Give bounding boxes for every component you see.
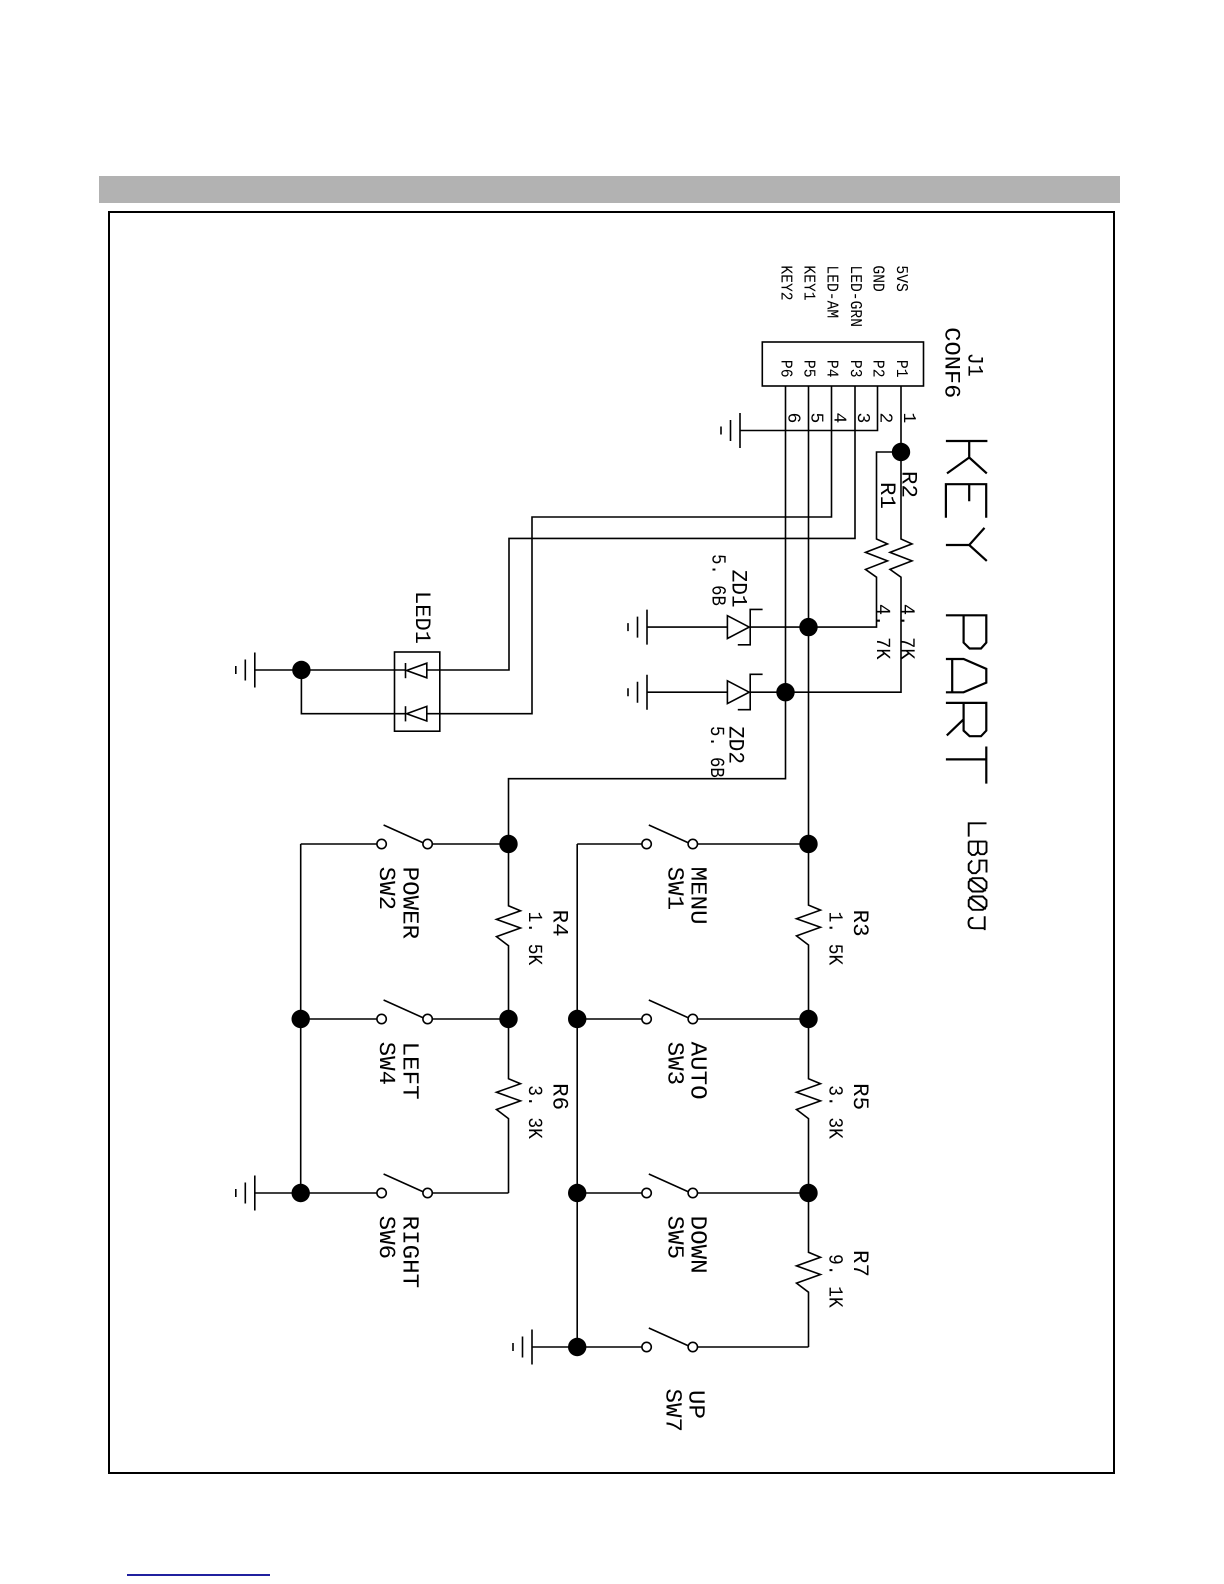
svg-text:SW4: SW4 [373, 1042, 399, 1086]
svg-text:6: 6 [783, 413, 803, 424]
svg-text:4: 4 [829, 413, 849, 424]
svg-text:POWER: POWER [397, 867, 423, 940]
svg-text:R4: R4 [546, 910, 571, 937]
svg-text:4. 7K: 4. 7K [870, 604, 893, 660]
svg-text:R3: R3 [847, 910, 872, 937]
svg-text:SW5: SW5 [662, 1216, 688, 1260]
svg-text:P5: P5 [799, 360, 818, 378]
svg-text:SW3: SW3 [662, 1042, 688, 1086]
svg-text:MENU: MENU [685, 867, 711, 925]
svg-text:CONF6: CONF6 [939, 327, 964, 398]
svg-text:3. 3K: 3. 3K [522, 1085, 545, 1139]
svg-text:P2: P2 [868, 360, 887, 378]
svg-text:ZD1: ZD1 [726, 570, 751, 608]
svg-text:J1: J1 [962, 353, 987, 377]
svg-text:P1: P1 [892, 360, 911, 378]
svg-text:9. 1K: 9. 1K [823, 1254, 846, 1308]
svg-text:1. 5K: 1. 5K [522, 912, 545, 966]
svg-text:LED-AM: LED-AM [822, 265, 841, 318]
svg-text:R2: R2 [896, 471, 921, 498]
svg-text:3: 3 [852, 413, 872, 424]
svg-text:SW7: SW7 [660, 1389, 686, 1433]
svg-text:AUTO: AUTO [685, 1042, 711, 1100]
svg-text:R7: R7 [847, 1250, 872, 1277]
svg-text:GND: GND [868, 265, 887, 291]
svg-text:1: 1 [898, 413, 918, 424]
svg-text:R1: R1 [874, 482, 899, 509]
svg-text:5: 5 [806, 413, 826, 424]
svg-text:P6: P6 [776, 360, 795, 378]
svg-text:SW6: SW6 [373, 1216, 399, 1260]
svg-text:UP: UP [682, 1390, 708, 1419]
svg-text:5. 6B: 5. 6B [706, 554, 729, 606]
svg-text:4. 7K: 4. 7K [895, 604, 918, 660]
svg-text:P4: P4 [822, 360, 841, 378]
svg-text:RIGHT: RIGHT [397, 1216, 423, 1289]
svg-text:DOWN: DOWN [685, 1216, 711, 1274]
svg-text:LED-GRN: LED-GRN [846, 265, 865, 327]
svg-text:KEY2: KEY2 [776, 265, 795, 300]
svg-text:2: 2 [875, 413, 895, 424]
svg-text:LEFT: LEFT [397, 1042, 423, 1100]
svg-text:SW2: SW2 [373, 867, 399, 911]
svg-text:P3: P3 [846, 360, 865, 378]
svg-text:LED1: LED1 [409, 591, 434, 644]
svg-text:5VS: 5VS [892, 265, 911, 291]
svg-text:5. 6B: 5. 6B [704, 726, 727, 778]
svg-text:R5: R5 [847, 1083, 872, 1110]
svg-text:KEY1: KEY1 [799, 265, 818, 300]
svg-text:3. 3K: 3. 3K [823, 1085, 846, 1139]
svg-text:1. 5K: 1. 5K [823, 912, 846, 966]
svg-text:SW1: SW1 [662, 867, 688, 911]
svg-text:R6: R6 [546, 1083, 571, 1110]
